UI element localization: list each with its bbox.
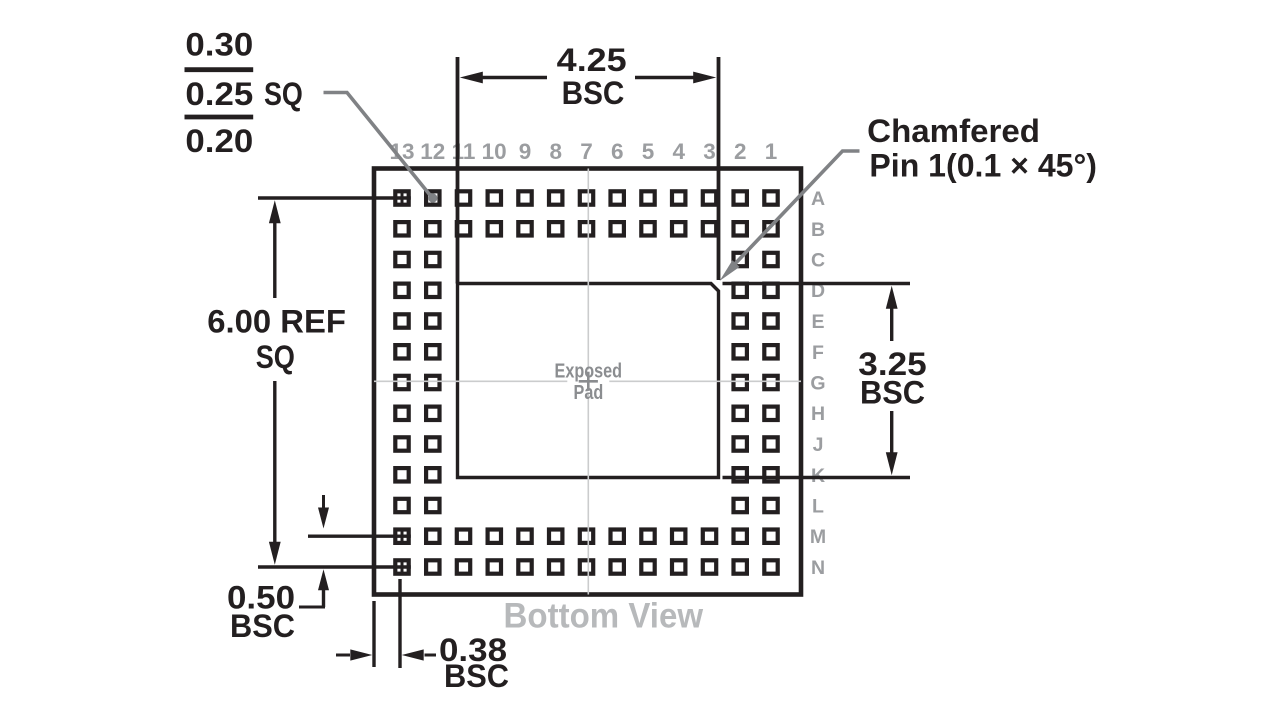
svg-text:Exposed: Exposed: [555, 361, 623, 383]
svg-text:Bottom View: Bottom View: [504, 597, 704, 636]
svg-text:M: M: [810, 526, 826, 548]
svg-text:Pin 1(0.1 × 45°): Pin 1(0.1 × 45°): [869, 148, 1097, 184]
svg-text:6: 6: [611, 139, 624, 164]
svg-text:8: 8: [550, 139, 563, 164]
svg-text:12: 12: [420, 139, 445, 164]
svg-text:H: H: [811, 403, 825, 425]
svg-text:BSC: BSC: [444, 658, 509, 694]
svg-text:2: 2: [734, 139, 747, 164]
svg-text:SQ: SQ: [264, 76, 303, 112]
svg-text:B: B: [811, 219, 825, 241]
svg-text:11: 11: [452, 139, 476, 164]
svg-text:6.00 REF: 6.00 REF: [207, 304, 346, 340]
svg-text:L: L: [812, 496, 824, 518]
svg-text:4: 4: [673, 139, 686, 164]
svg-text:5: 5: [642, 139, 655, 164]
svg-text:E: E: [811, 311, 824, 333]
svg-text:Pad: Pad: [574, 382, 604, 404]
svg-text:7: 7: [580, 139, 593, 164]
svg-text:C: C: [811, 250, 825, 272]
svg-text:F: F: [812, 342, 824, 364]
svg-text:SQ: SQ: [256, 339, 295, 375]
svg-text:0.20: 0.20: [185, 123, 253, 159]
svg-text:1: 1: [765, 139, 778, 164]
svg-text:BSC: BSC: [230, 608, 295, 644]
svg-text:0.30: 0.30: [185, 26, 253, 62]
svg-text:10: 10: [482, 139, 507, 164]
svg-text:9: 9: [519, 139, 532, 164]
svg-text:Chamfered: Chamfered: [867, 113, 1040, 149]
svg-text:3: 3: [703, 139, 716, 164]
svg-text:G: G: [810, 373, 825, 395]
svg-text:A: A: [811, 188, 825, 210]
svg-text:0.25: 0.25: [185, 76, 253, 112]
svg-text:J: J: [813, 434, 824, 456]
svg-text:4.25: 4.25: [557, 42, 627, 78]
svg-text:BSC: BSC: [860, 374, 925, 410]
svg-text:BSC: BSC: [562, 75, 625, 111]
svg-text:N: N: [811, 557, 825, 579]
